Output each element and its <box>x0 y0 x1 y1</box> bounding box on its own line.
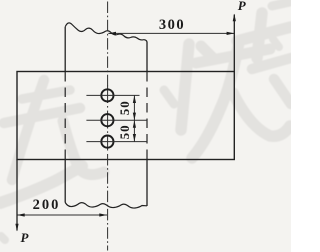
vertical plate right edge hidden dashed <box>146 72 148 160</box>
watermark char LUN partial top right <box>272 2 290 6</box>
bottom break wavy line <box>65 203 147 209</box>
dimension 200 right arrow <box>99 213 107 216</box>
dimension 200 left arrow <box>17 213 25 216</box>
dimension 200 line <box>17 214 107 216</box>
top break wavy line <box>65 23 147 42</box>
svg-text:50: 50 <box>117 100 132 115</box>
watermark partial char bottom left <box>0 166 82 203</box>
dimension 50 upper arrow up <box>133 95 136 103</box>
bolt B2 center mark <box>86 119 147 121</box>
vertical centerline dot <box>107 131 109 133</box>
vertical centerline solid through bolt B2 <box>107 111 109 129</box>
force P top right line <box>233 15 235 72</box>
vertical plate left edge visible lower <box>64 160 66 203</box>
vertical plate right edge visible lower <box>146 160 148 207</box>
force P bottom left arrowhead <box>15 224 18 232</box>
vertical plate left edge hidden dashed <box>64 72 66 160</box>
bolt B3 center mark <box>86 141 147 143</box>
bolt B1 center mark <box>86 94 139 96</box>
dimension 300 line <box>108 32 234 34</box>
dimension 300 right arrow <box>227 32 235 35</box>
vertical centerline solid through bolt B3 <box>107 136 109 151</box>
watermark char WU left part <box>12 80 44 180</box>
force P bottom left line <box>16 160 18 231</box>
dimension 50 upper arrow down <box>133 113 136 121</box>
dimension 50 upper line <box>133 95 135 141</box>
svg-text:50: 50 <box>117 124 132 139</box>
horizontal gusset plate outline <box>17 72 234 160</box>
force P top right arrowhead <box>233 14 236 22</box>
dimension 50 lower arrow down <box>133 134 136 142</box>
dimension 300 left arrow <box>108 32 116 35</box>
svg-text:200: 200 <box>33 197 61 213</box>
svg-text:P: P <box>238 0 247 13</box>
bolt B3 circle <box>101 136 113 148</box>
svg-text:P: P <box>21 230 30 245</box>
bolt B2 circle <box>101 114 113 126</box>
vertical centerline dash-dot upper <box>107 2 109 89</box>
dimension 50 lower arrow up <box>133 120 136 128</box>
svg-text:300: 300 <box>159 17 185 33</box>
vertical plate left edge visible upper <box>64 27 66 72</box>
vertical centerline dot <box>107 106 109 108</box>
vertical plate right edge visible upper <box>146 42 148 72</box>
watermark char YOU middle <box>164 90 174 104</box>
vertical centerline dash-dot lower <box>107 154 109 251</box>
bolt B1 circle <box>101 89 113 101</box>
vertical centerline solid through bolt B1 <box>107 86 109 104</box>
